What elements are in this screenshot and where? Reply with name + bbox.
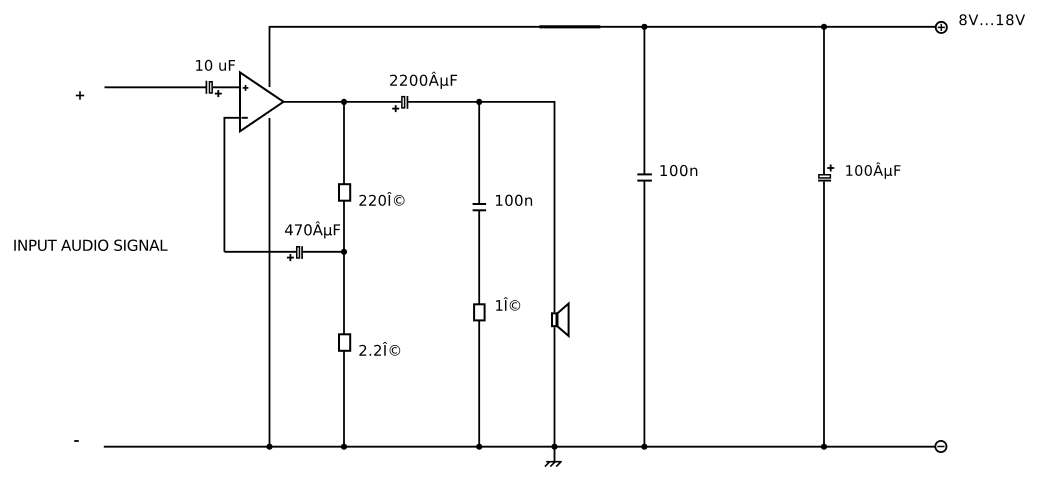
node dot bottom speaker bbox=[551, 444, 557, 450]
wire C4 to R3 bbox=[478, 210, 480, 304]
wire speaker to ground rail bbox=[554, 327, 556, 447]
label 1 ohm bbox=[496, 297, 520, 310]
pin - inverting bbox=[242, 117, 248, 119]
wire supply branch C5 bbox=[643, 27, 645, 175]
resistor R3 1 ohm bbox=[474, 304, 485, 320]
wire R1 to FB node bbox=[343, 201, 345, 252]
label 220 ohm bbox=[359, 192, 404, 206]
label 100n zobel bbox=[496, 195, 532, 206]
node dot bottom C6 bbox=[821, 444, 827, 450]
speaker LS1 bbox=[552, 304, 569, 336]
wire supply vertical lower bbox=[269, 118, 271, 447]
label 100AuF bbox=[846, 162, 900, 178]
node dot bottom supply bbox=[266, 444, 272, 450]
wire C2 to speaker corner bbox=[408, 102, 554, 312]
wire input left bbox=[105, 86, 207, 88]
label 10 uF bbox=[196, 60, 235, 71]
wire R2 to ground rail bbox=[343, 351, 345, 447]
wire overlap segment on top rail bbox=[539, 25, 600, 28]
label 8V...18V bbox=[959, 14, 1025, 25]
capacitor C6 100uF polarized bbox=[818, 165, 834, 181]
ground symbol bbox=[545, 462, 562, 467]
capacitor C2 2200uF polarized bbox=[392, 96, 407, 112]
node V+ top rail bbox=[270, 26, 936, 28]
wire supply vertical upper bbox=[269, 26, 271, 87]
node dot top rail C6 bbox=[821, 24, 827, 30]
node dot bottom C5 bbox=[641, 444, 647, 450]
node feedback junction dot bbox=[341, 249, 347, 255]
wire C5 to ground rail bbox=[643, 181, 645, 447]
capacitor C3 470uF polarized bbox=[287, 246, 302, 261]
node dot bottom R3 bbox=[476, 444, 482, 450]
label 470AuF bbox=[285, 221, 340, 238]
label 2200AuF bbox=[390, 72, 457, 89]
wire zobel node to C4 bbox=[478, 102, 480, 204]
wire C3 to node FB bbox=[303, 251, 344, 253]
wire feedback bbox=[224, 118, 240, 252]
terminal GND negative bbox=[935, 441, 946, 452]
capacitor C5 100n bbox=[637, 174, 652, 180]
label 100n supply bbox=[660, 165, 697, 176]
label 2.2 ohm bbox=[359, 342, 400, 356]
wire cap to opamp bbox=[213, 86, 240, 88]
wire FB node to R2 bbox=[343, 252, 345, 334]
capacitor C4 100n bbox=[473, 204, 487, 210]
wire C6 to ground rail bbox=[823, 182, 825, 447]
node output junction dot bbox=[341, 99, 347, 105]
label - input terminal bbox=[74, 440, 79, 442]
wire output bbox=[284, 101, 402, 103]
node GND bottom rail bbox=[104, 446, 935, 448]
node zobel junction dot bbox=[476, 99, 482, 105]
wire supply branch C6 bbox=[823, 27, 825, 174]
op-amp U1 bbox=[240, 72, 284, 131]
label INPUT AUDIO SIGNAL bbox=[14, 240, 167, 251]
wire feedback horizontal to C3 bbox=[224, 251, 296, 253]
terminal V+ positive bbox=[936, 22, 947, 33]
wire output node to R1 bbox=[343, 102, 345, 184]
node dot top rail C5 bbox=[641, 24, 647, 30]
wire ground stub bbox=[554, 447, 556, 462]
capacitor C1 10uF polarized bbox=[206, 81, 221, 97]
label + input terminal bbox=[76, 91, 84, 99]
node dot bottom R2 bbox=[341, 444, 347, 450]
pin + noninverting bbox=[243, 85, 249, 91]
resistor R2 2.2 ohm bbox=[339, 334, 350, 351]
resistor R1 220 ohm bbox=[339, 184, 350, 201]
wire R3 to ground rail bbox=[478, 320, 480, 446]
